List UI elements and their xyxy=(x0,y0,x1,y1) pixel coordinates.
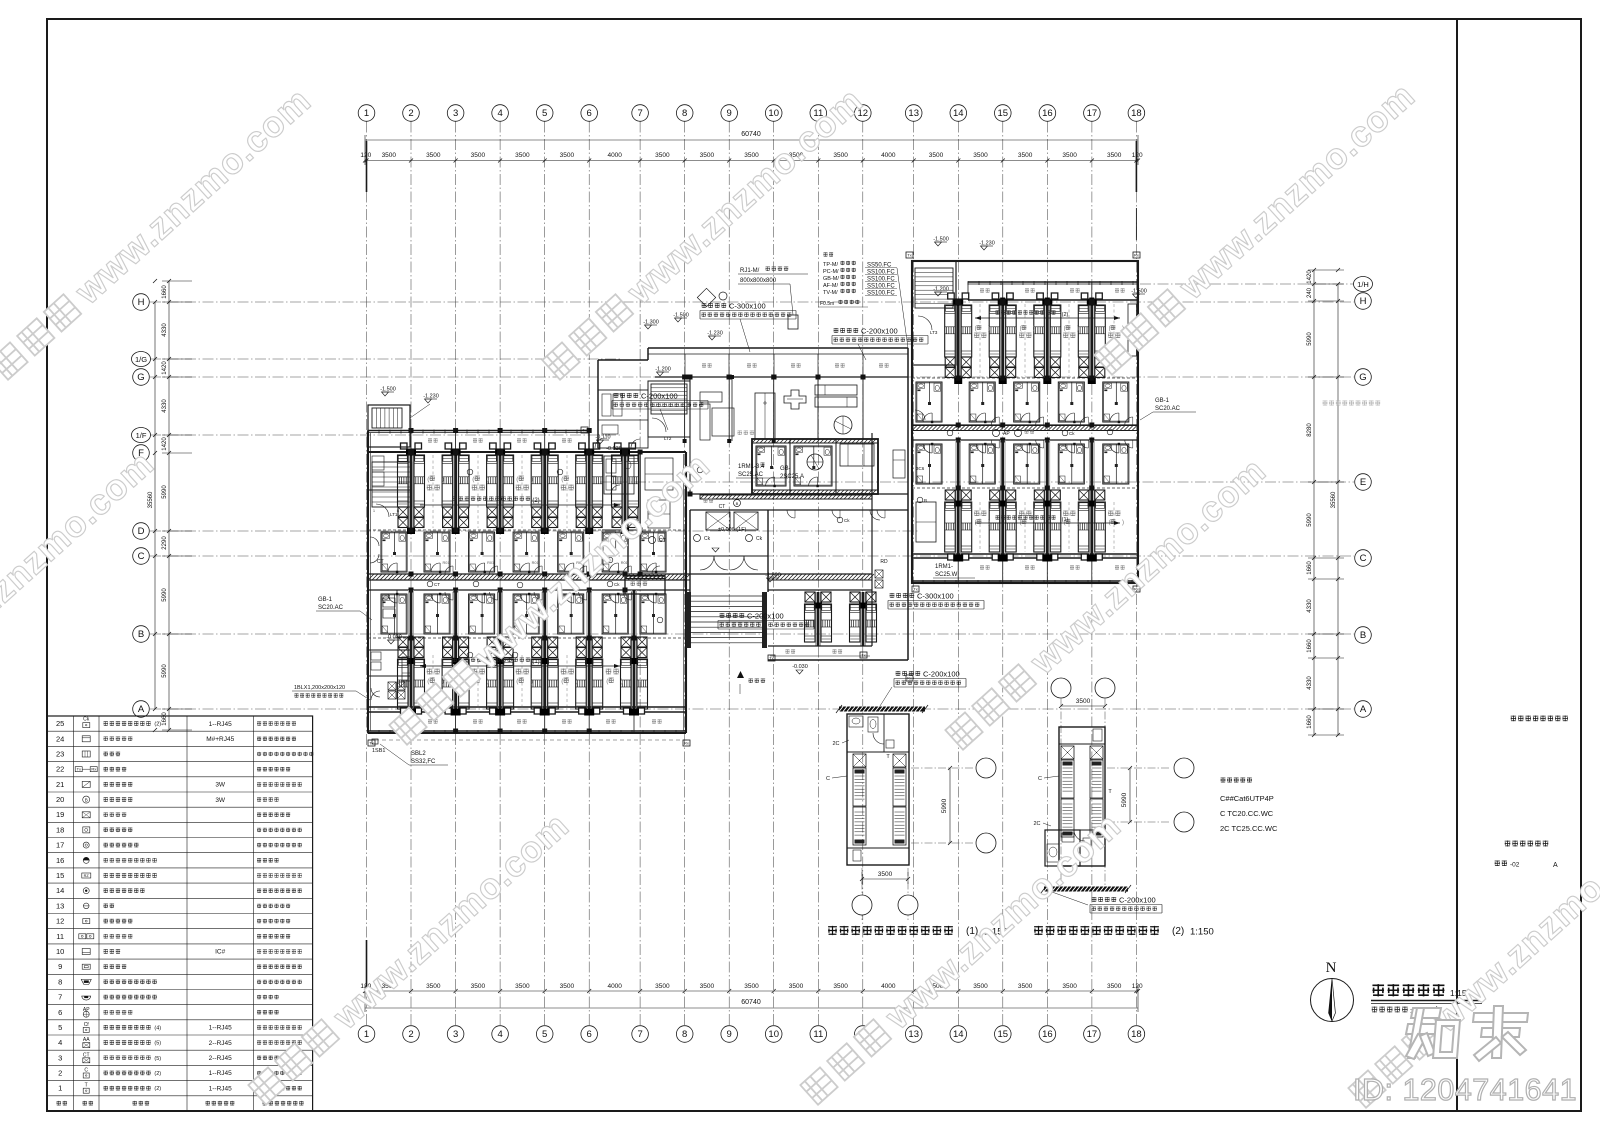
svg-text:-1.200: -1.200 xyxy=(655,367,671,373)
svg-text:3500: 3500 xyxy=(1107,152,1122,159)
detail plan 2 hatch bar xyxy=(1044,887,1128,892)
legend table frame xyxy=(47,716,313,1111)
svg-text:B: B xyxy=(1360,630,1366,641)
svg-text:5: 5 xyxy=(58,1023,62,1032)
middle west rooms furniture xyxy=(602,394,611,416)
svg-text:1RM1-: 1RM1- xyxy=(935,564,953,570)
left wing outer walls xyxy=(367,431,369,734)
svg-text:13: 13 xyxy=(56,901,64,910)
top grid bubbles 1-18 xyxy=(358,105,375,122)
detail plan 2 grid circles top xyxy=(1051,678,1071,698)
svg-text:LT2: LT2 xyxy=(664,436,672,441)
svg-text:3500: 3500 xyxy=(833,152,848,159)
drawing title xyxy=(1372,984,1384,996)
svg-text:E: E xyxy=(1360,477,1366,488)
left wing bottom balcony band xyxy=(410,712,412,733)
svg-text:2: 2 xyxy=(58,1069,62,1078)
svg-text:(4): (4) xyxy=(154,1025,161,1031)
svg-text:3500: 3500 xyxy=(515,983,530,990)
svg-text:Ck: Ck xyxy=(844,518,850,523)
svg-text:17: 17 xyxy=(1087,108,1098,119)
svg-text:6: 6 xyxy=(587,108,592,119)
svg-text:1:150: 1:150 xyxy=(1190,927,1214,938)
svg-text:C: C xyxy=(1038,776,1042,782)
svg-text:3500: 3500 xyxy=(929,152,944,159)
svg-text:5: 5 xyxy=(542,1029,547,1040)
detail plan 1 grid circles bottom xyxy=(861,868,863,922)
detail plan 2 top strip xyxy=(1093,729,1102,741)
svg-text:7: 7 xyxy=(637,108,642,119)
svg-text:Ck: Ck xyxy=(614,582,620,587)
svg-text:B: B xyxy=(138,629,144,640)
svg-text:14: 14 xyxy=(953,1029,964,1040)
svg-text:7: 7 xyxy=(637,1029,642,1040)
svg-text:9: 9 xyxy=(727,108,732,119)
middle activity partition xyxy=(689,377,691,494)
svg-text:G: G xyxy=(1359,372,1366,383)
svg-text:3500: 3500 xyxy=(1107,983,1122,990)
svg-text:1/F: 1/F xyxy=(136,431,147,440)
title block vertical texts xyxy=(1511,716,1516,722)
svg-text:): ) xyxy=(576,476,578,483)
svg-text:18: 18 xyxy=(56,825,64,834)
svg-text:4000: 4000 xyxy=(607,983,622,990)
svg-text:Rx: Rx xyxy=(907,676,912,681)
svg-text:17: 17 xyxy=(56,841,64,850)
right wing upper bed clusters xyxy=(955,302,957,378)
svg-text:CT: CT xyxy=(659,538,666,544)
bottom dimension chain xyxy=(365,990,1138,992)
svg-text:4: 4 xyxy=(497,1029,502,1040)
svg-text:Tx: Tx xyxy=(582,428,586,433)
detail plan 1 cable label xyxy=(896,671,901,676)
svg-text:A: A xyxy=(1553,862,1558,869)
middle corridor xyxy=(690,493,908,495)
svg-text:2C TC25.CC.WC: 2C TC25.CC.WC xyxy=(1220,824,1278,833)
right wing stair LT3 xyxy=(912,261,956,365)
svg-text:8280: 8280 xyxy=(1307,423,1313,437)
left wing top balcony band xyxy=(368,430,589,432)
svg-text:15: 15 xyxy=(998,108,1009,119)
detail plan 2 caption xyxy=(1034,926,1043,935)
svg-text:6: 6 xyxy=(587,1029,592,1040)
svg-text:SBL2: SBL2 xyxy=(411,751,426,757)
svg-text:3500: 3500 xyxy=(789,983,804,990)
svg-text:23: 23 xyxy=(56,750,64,759)
svg-text:1BLX1,200x200x120: 1BLX1,200x200x120 xyxy=(294,685,345,691)
top dimension chain xyxy=(365,139,1138,141)
right wing corridor labels xyxy=(993,430,1000,437)
svg-text:): ) xyxy=(1077,326,1079,332)
svg-text:): ) xyxy=(487,476,489,483)
svg-text:C-300x100: C-300x100 xyxy=(729,302,766,311)
svg-text:10: 10 xyxy=(56,947,64,956)
detail plan 1 bathroom xyxy=(849,716,863,727)
svg-text:1420: 1420 xyxy=(162,437,168,451)
svg-text:2SC25.A: 2SC25.A xyxy=(780,474,804,480)
svg-text:(6: (6 xyxy=(975,326,981,332)
svg-text:C: C xyxy=(1360,553,1367,564)
corridor walls extension to middle xyxy=(686,573,872,575)
svg-text:R01: R01 xyxy=(532,561,539,565)
svg-text:5990: 5990 xyxy=(1121,792,1128,807)
svg-text:SS32,FC: SS32,FC xyxy=(411,759,436,765)
detail plan 1 grid circles right xyxy=(911,767,973,769)
svg-text:-0.030: -0.030 xyxy=(386,635,402,641)
middle north room walls xyxy=(684,377,686,441)
svg-text:3500: 3500 xyxy=(426,983,441,990)
svg-text:1660: 1660 xyxy=(1307,561,1313,575)
svg-text:(6: (6 xyxy=(1109,326,1115,332)
svg-text:-1.230: -1.230 xyxy=(707,331,723,337)
svg-text:3500: 3500 xyxy=(1062,152,1077,159)
svg-text:(2): (2) xyxy=(1062,312,1069,318)
middle east connector xyxy=(871,433,873,646)
svg-text:60740: 60740 xyxy=(741,131,761,138)
svg-text:C-200x100: C-200x100 xyxy=(747,612,784,621)
svg-text:C-200x100: C-200x100 xyxy=(1119,896,1156,905)
svg-text:3500: 3500 xyxy=(700,152,715,159)
svg-text:): ) xyxy=(531,678,533,685)
middle south rooms xyxy=(815,592,817,646)
svg-text:1/H: 1/H xyxy=(1357,280,1369,289)
svg-text:TV-M/: TV-M/ xyxy=(823,290,838,296)
svg-text:4330: 4330 xyxy=(1307,676,1313,690)
svg-text:AA: AA xyxy=(83,1037,90,1043)
left wing balcony labels top xyxy=(428,438,432,442)
svg-text:35560: 35560 xyxy=(1331,491,1337,508)
svg-text:11: 11 xyxy=(813,1029,823,1040)
svg-text:16: 16 xyxy=(1042,108,1053,119)
svg-text:3500: 3500 xyxy=(655,983,670,990)
left wing entry doors xyxy=(370,537,379,546)
svg-text:3500: 3500 xyxy=(426,152,441,159)
middle balcony band top xyxy=(655,376,908,378)
detail plan 1 room outline xyxy=(847,714,909,865)
right wing floor walls xyxy=(912,377,1138,379)
svg-text:800x800x800: 800x800x800 xyxy=(740,278,777,284)
svg-text:Ck: Ck xyxy=(1069,431,1075,436)
svg-text:(6: (6 xyxy=(1064,326,1070,332)
svg-text:10: 10 xyxy=(768,1029,779,1040)
svg-text:4330: 4330 xyxy=(162,323,168,337)
vertical grid lines 1-18 xyxy=(366,122,368,1026)
svg-text:): ) xyxy=(988,326,990,332)
svg-text:(2): (2) xyxy=(154,722,161,728)
svg-text:1660: 1660 xyxy=(1307,715,1313,729)
svg-text:TP-M/: TP-M/ xyxy=(823,262,838,268)
svg-text:5: 5 xyxy=(542,108,547,119)
svg-text:8: 8 xyxy=(682,1029,687,1040)
svg-text:-1.230: -1.230 xyxy=(423,394,439,400)
svg-text:5990: 5990 xyxy=(1307,332,1313,346)
north arrow xyxy=(1311,979,1354,1022)
left wing upper bed clusters xyxy=(408,452,410,530)
right wing detail arrows xyxy=(975,317,1120,319)
svg-text:9: 9 xyxy=(727,1029,732,1040)
svg-text:R01: R01 xyxy=(443,561,450,565)
svg-text:(5): (5) xyxy=(154,1056,161,1062)
svg-text:1660: 1660 xyxy=(162,712,168,726)
svg-text:Ck: Ck xyxy=(83,717,90,723)
svg-text:CT: CT xyxy=(377,559,384,565)
svg-text:): ) xyxy=(1033,326,1035,332)
svg-text:3500: 3500 xyxy=(878,871,893,878)
left wing detail arrow 2 xyxy=(420,504,620,506)
svg-text:120: 120 xyxy=(1132,152,1143,159)
svg-text:-02: -02 xyxy=(1510,862,1520,869)
svg-text:3500: 3500 xyxy=(382,152,397,159)
svg-text:2--RJ45: 2--RJ45 xyxy=(209,1055,233,1062)
svg-text:(6: (6 xyxy=(1020,326,1026,332)
svg-text:3500: 3500 xyxy=(655,152,670,159)
svg-text:-1.500: -1.500 xyxy=(765,573,781,579)
svg-text:3500: 3500 xyxy=(973,152,988,159)
svg-text:GB-M/: GB-M/ xyxy=(823,276,839,282)
left column partitions xyxy=(368,649,411,651)
diagonal watermark tiles xyxy=(0,79,319,385)
svg-text:14: 14 xyxy=(953,108,964,119)
svg-text:-1.300: -1.300 xyxy=(643,320,659,326)
svg-text:35560: 35560 xyxy=(148,491,154,508)
svg-text:Cf: Cf xyxy=(84,1022,90,1028)
middle corridor door arcs xyxy=(787,510,795,518)
left row bubbles xyxy=(133,294,150,311)
svg-text:N: N xyxy=(1326,960,1337,976)
right wing annotations top xyxy=(935,242,942,246)
svg-text:15: 15 xyxy=(56,871,64,880)
svg-text:120: 120 xyxy=(1132,983,1143,990)
svg-text:1: 1 xyxy=(58,1084,62,1093)
svg-text:): ) xyxy=(576,678,578,685)
right dimension chain xyxy=(1313,270,1315,735)
svg-text:(2): (2) xyxy=(154,1071,161,1077)
svg-text:B: B xyxy=(736,501,739,506)
middle stair LT2 xyxy=(648,381,690,437)
svg-text:18: 18 xyxy=(1131,1029,1142,1040)
svg-text:3W: 3W xyxy=(215,797,226,804)
svg-text:LT3: LT3 xyxy=(930,330,938,335)
middle dark bath block xyxy=(752,439,878,494)
horizontal grid lines xyxy=(150,301,1354,303)
right wing balcony top xyxy=(968,299,1138,301)
left wing upper bathrooms xyxy=(424,532,450,572)
svg-text:Tx: Tx xyxy=(907,253,911,258)
svg-text:24: 24 xyxy=(56,734,64,743)
svg-text:3500: 3500 xyxy=(1076,698,1091,705)
svg-text:14: 14 xyxy=(56,886,64,895)
svg-text:2--RJ45: 2--RJ45 xyxy=(209,1040,233,1047)
svg-text:3500: 3500 xyxy=(1018,983,1033,990)
svg-text:C: C xyxy=(826,776,830,782)
svg-text:(2): (2) xyxy=(532,498,539,504)
svg-text:1660: 1660 xyxy=(162,285,168,299)
svg-text:4: 4 xyxy=(497,108,502,119)
big znzmo watermark glyph 2 xyxy=(1473,1006,1528,1061)
svg-text:): ) xyxy=(531,476,533,483)
svg-text:B: B xyxy=(85,797,88,802)
svg-text:(1): (1) xyxy=(1062,517,1069,523)
svg-text:RZ: RZ xyxy=(84,874,90,878)
bottom grid bubbles 1-18 xyxy=(358,1026,375,1043)
svg-text:SC25.W: SC25.W xyxy=(935,572,958,578)
left wing corridor hatch xyxy=(368,574,690,580)
svg-text:SC20.AC: SC20.AC xyxy=(1155,406,1181,412)
gray note right xyxy=(1323,400,1328,405)
cable tray annotations xyxy=(702,303,707,308)
svg-text:Rx: Rx xyxy=(1134,253,1139,258)
svg-text:4000: 4000 xyxy=(881,983,896,990)
svg-text:Tx: Tx xyxy=(913,587,917,592)
svg-text:Rx: Rx xyxy=(684,741,689,746)
left wing room labels lower xyxy=(427,669,433,675)
middle cross equipment xyxy=(784,390,806,409)
svg-text:2C: 2C xyxy=(832,741,839,747)
right wing lower bed clusters xyxy=(955,440,957,558)
svg-text:Ck: Ck xyxy=(704,536,711,542)
left column upper partitions xyxy=(368,489,411,491)
svg-text:C-200x100: C-200x100 xyxy=(861,327,898,336)
svg-text:C##Cat6UTP4P: C##Cat6UTP4P xyxy=(1220,794,1274,803)
legend table header row xyxy=(57,1101,61,1106)
svg-text:): ) xyxy=(1122,520,1124,526)
title block separator xyxy=(1456,19,1458,1111)
svg-text:): ) xyxy=(442,476,444,483)
svg-text:3500: 3500 xyxy=(560,152,575,159)
detail plan 2 room outline xyxy=(1059,727,1105,866)
middle entrance hall xyxy=(694,535,701,542)
svg-text:Rx: Rx xyxy=(91,767,96,772)
svg-text:1--RJ45: 1--RJ45 xyxy=(209,1085,233,1092)
svg-text:3: 3 xyxy=(453,1029,458,1040)
svg-text:(1): (1) xyxy=(532,659,539,665)
svg-text:21: 21 xyxy=(56,780,64,789)
svg-text:3500: 3500 xyxy=(973,983,988,990)
svg-text:R01: R01 xyxy=(621,561,628,565)
svg-text:1420: 1420 xyxy=(1307,270,1313,284)
svg-text:1RM1-3.4: 1RM1-3.4 xyxy=(738,464,765,470)
svg-text:-0.110: -0.110 xyxy=(595,435,610,441)
svg-text:-1.500: -1.500 xyxy=(1131,289,1147,295)
svg-text:IC#: IC# xyxy=(215,949,226,956)
svg-text:AP: AP xyxy=(1003,431,1010,437)
svg-text:10: 10 xyxy=(768,108,779,119)
svg-text:G: G xyxy=(137,372,144,383)
svg-text:4000: 4000 xyxy=(881,152,896,159)
annotation leader lines xyxy=(660,409,668,430)
right wing upper bathrooms xyxy=(969,382,995,422)
svg-text:B: B xyxy=(924,498,927,503)
svg-text:2C: 2C xyxy=(1033,821,1040,827)
svg-text:Tx: Tx xyxy=(77,767,81,772)
svg-text:5990: 5990 xyxy=(162,664,168,678)
left wing shaft boxes xyxy=(388,682,396,690)
detail plan 2 bathroom xyxy=(1045,830,1080,866)
svg-text:2290: 2290 xyxy=(162,536,168,550)
svg-text:1: 1 xyxy=(364,1029,369,1040)
svg-text:2: 2 xyxy=(408,108,413,119)
svg-text:5990: 5990 xyxy=(1307,513,1313,527)
svg-text:11: 11 xyxy=(56,932,64,941)
svg-text:16: 16 xyxy=(56,856,64,865)
svg-text:8: 8 xyxy=(682,108,687,119)
svg-text:(5): (5) xyxy=(154,1041,161,1047)
middle west rooms xyxy=(598,390,648,448)
svg-text:C-200x100: C-200x100 xyxy=(641,392,678,401)
grid line 1 and 18 end bars xyxy=(366,141,368,192)
svg-text:C TC20.CC.WC: C TC20.CC.WC xyxy=(1220,809,1274,818)
left wing lower bathrooms xyxy=(424,594,450,634)
left wing 1SB1 label xyxy=(372,739,378,744)
svg-text:4000: 4000 xyxy=(607,152,622,159)
svg-text:T: T xyxy=(85,1083,88,1089)
svg-text:6: 6 xyxy=(58,1008,62,1017)
detail plan 2 grid circles right xyxy=(1107,767,1171,769)
svg-text:19: 19 xyxy=(56,810,64,819)
svg-text:1--RJ45: 1--RJ45 xyxy=(209,1070,233,1077)
svg-text:1--RJ45: 1--RJ45 xyxy=(209,1025,233,1032)
svg-text:1: 1 xyxy=(364,108,369,119)
svg-text:GB-1: GB-1 xyxy=(318,597,333,603)
right row bubbles xyxy=(1355,293,1372,310)
svg-text:5990: 5990 xyxy=(162,588,168,602)
svg-text:22: 22 xyxy=(56,765,64,774)
TxRx corner device boxes xyxy=(581,427,588,433)
svg-text:-1.500: -1.500 xyxy=(673,313,689,319)
svg-text:3500: 3500 xyxy=(471,983,486,990)
svg-text:C: C xyxy=(138,551,145,562)
scattered corridor symbols xyxy=(427,581,433,587)
svg-text:): ) xyxy=(621,678,623,685)
svg-text:20: 20 xyxy=(56,795,64,804)
left dimension chain xyxy=(168,281,170,730)
svg-text:1420: 1420 xyxy=(162,361,168,375)
svg-text:3: 3 xyxy=(58,1053,62,1062)
left wing stair LT1 xyxy=(372,462,412,507)
svg-text:5990: 5990 xyxy=(941,798,948,813)
svg-text:5990: 5990 xyxy=(162,485,168,499)
svg-text:H: H xyxy=(138,297,145,308)
svg-text:3500: 3500 xyxy=(471,152,486,159)
svg-text:3500: 3500 xyxy=(1062,983,1077,990)
detail plan 1 beds xyxy=(853,754,866,767)
svg-text:): ) xyxy=(487,678,489,685)
right wing lower bathrooms xyxy=(969,444,995,484)
left wing bottom offset dashes xyxy=(368,739,690,741)
middle activity room furniture xyxy=(700,392,722,402)
right wing bottom balcony xyxy=(957,558,959,583)
svg-text:GB-: GB- xyxy=(780,466,791,472)
svg-text:F0.5m: F0.5m xyxy=(820,301,834,307)
middle entrance steps xyxy=(686,592,691,648)
svg-text:-1.500: -1.500 xyxy=(380,387,396,393)
left wing lower bed clusters xyxy=(408,590,410,712)
svg-text:3500: 3500 xyxy=(744,983,759,990)
svg-text:B: B xyxy=(397,508,400,513)
svg-text:C-200x100: C-200x100 xyxy=(923,670,960,679)
svg-text:AF-M/: AF-M/ xyxy=(823,283,838,289)
svg-text:PC-M/: PC-M/ xyxy=(823,269,839,275)
svg-text:1SB1: 1SB1 xyxy=(372,748,385,754)
svg-text:-0.030: -0.030 xyxy=(792,664,808,670)
svg-text:3500: 3500 xyxy=(515,152,530,159)
svg-text:R01: R01 xyxy=(487,561,494,565)
svg-text:3C6: 3C6 xyxy=(916,466,925,471)
svg-text:A: A xyxy=(138,704,145,715)
svg-text:RJ1-M/: RJ1-M/ xyxy=(740,268,760,274)
svg-text:-0.030: -0.030 xyxy=(606,446,622,452)
svg-text:H: H xyxy=(1360,296,1367,307)
